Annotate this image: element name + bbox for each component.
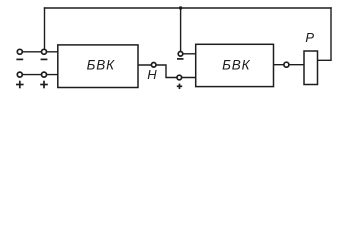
terminal T1 (minus input, left) — [17, 49, 22, 54]
wire left drop from rail to terminal T2 — [44, 8, 46, 49]
svg-text:Н: Н — [147, 67, 157, 82]
block U2 (БВК contactless breaker unit) — [196, 44, 274, 86]
terminal T3 (plus input, left) — [17, 72, 22, 77]
svg-text:БВК: БВК — [222, 58, 251, 73]
terminal T2 (minus input, right) — [42, 49, 47, 54]
wire bottom input row to U1 — [20, 74, 58, 76]
polarity mark minus at U2 input — [177, 58, 184, 60]
wire top input row to U1 — [20, 51, 58, 53]
wire right drop from rail to relay P — [318, 8, 332, 60]
polarity mark minus under T1 — [16, 58, 23, 60]
wire middle drop from rail to minus node of U2 — [180, 8, 182, 51]
plus terminal of U2 — [177, 75, 182, 80]
relay coil P — [304, 51, 318, 85]
polarity mark minus under T2 — [41, 58, 48, 60]
polarity mark plus at U2 input — [177, 85, 182, 87]
terminal T4 (plus input, right) — [42, 72, 47, 77]
block U1 (БВК contactless breaker unit) — [58, 45, 138, 88]
polarity mark plus under T4 — [40, 84, 48, 86]
svg-text:Р: Р — [305, 30, 314, 45]
wire top supply rail — [45, 7, 332, 9]
wire minus node to U2 — [181, 53, 196, 55]
wire node H from U1 to plus node of U2 — [138, 65, 196, 78]
minus terminal of U2 — [178, 52, 183, 57]
svg-text:БВК: БВК — [87, 58, 116, 73]
polarity mark plus under T3 — [16, 84, 24, 86]
junction dot on rail — [179, 6, 182, 9]
wire U2 output to relay P — [274, 64, 305, 66]
output terminal of U2 — [284, 62, 289, 67]
node H terminal — [151, 63, 156, 68]
